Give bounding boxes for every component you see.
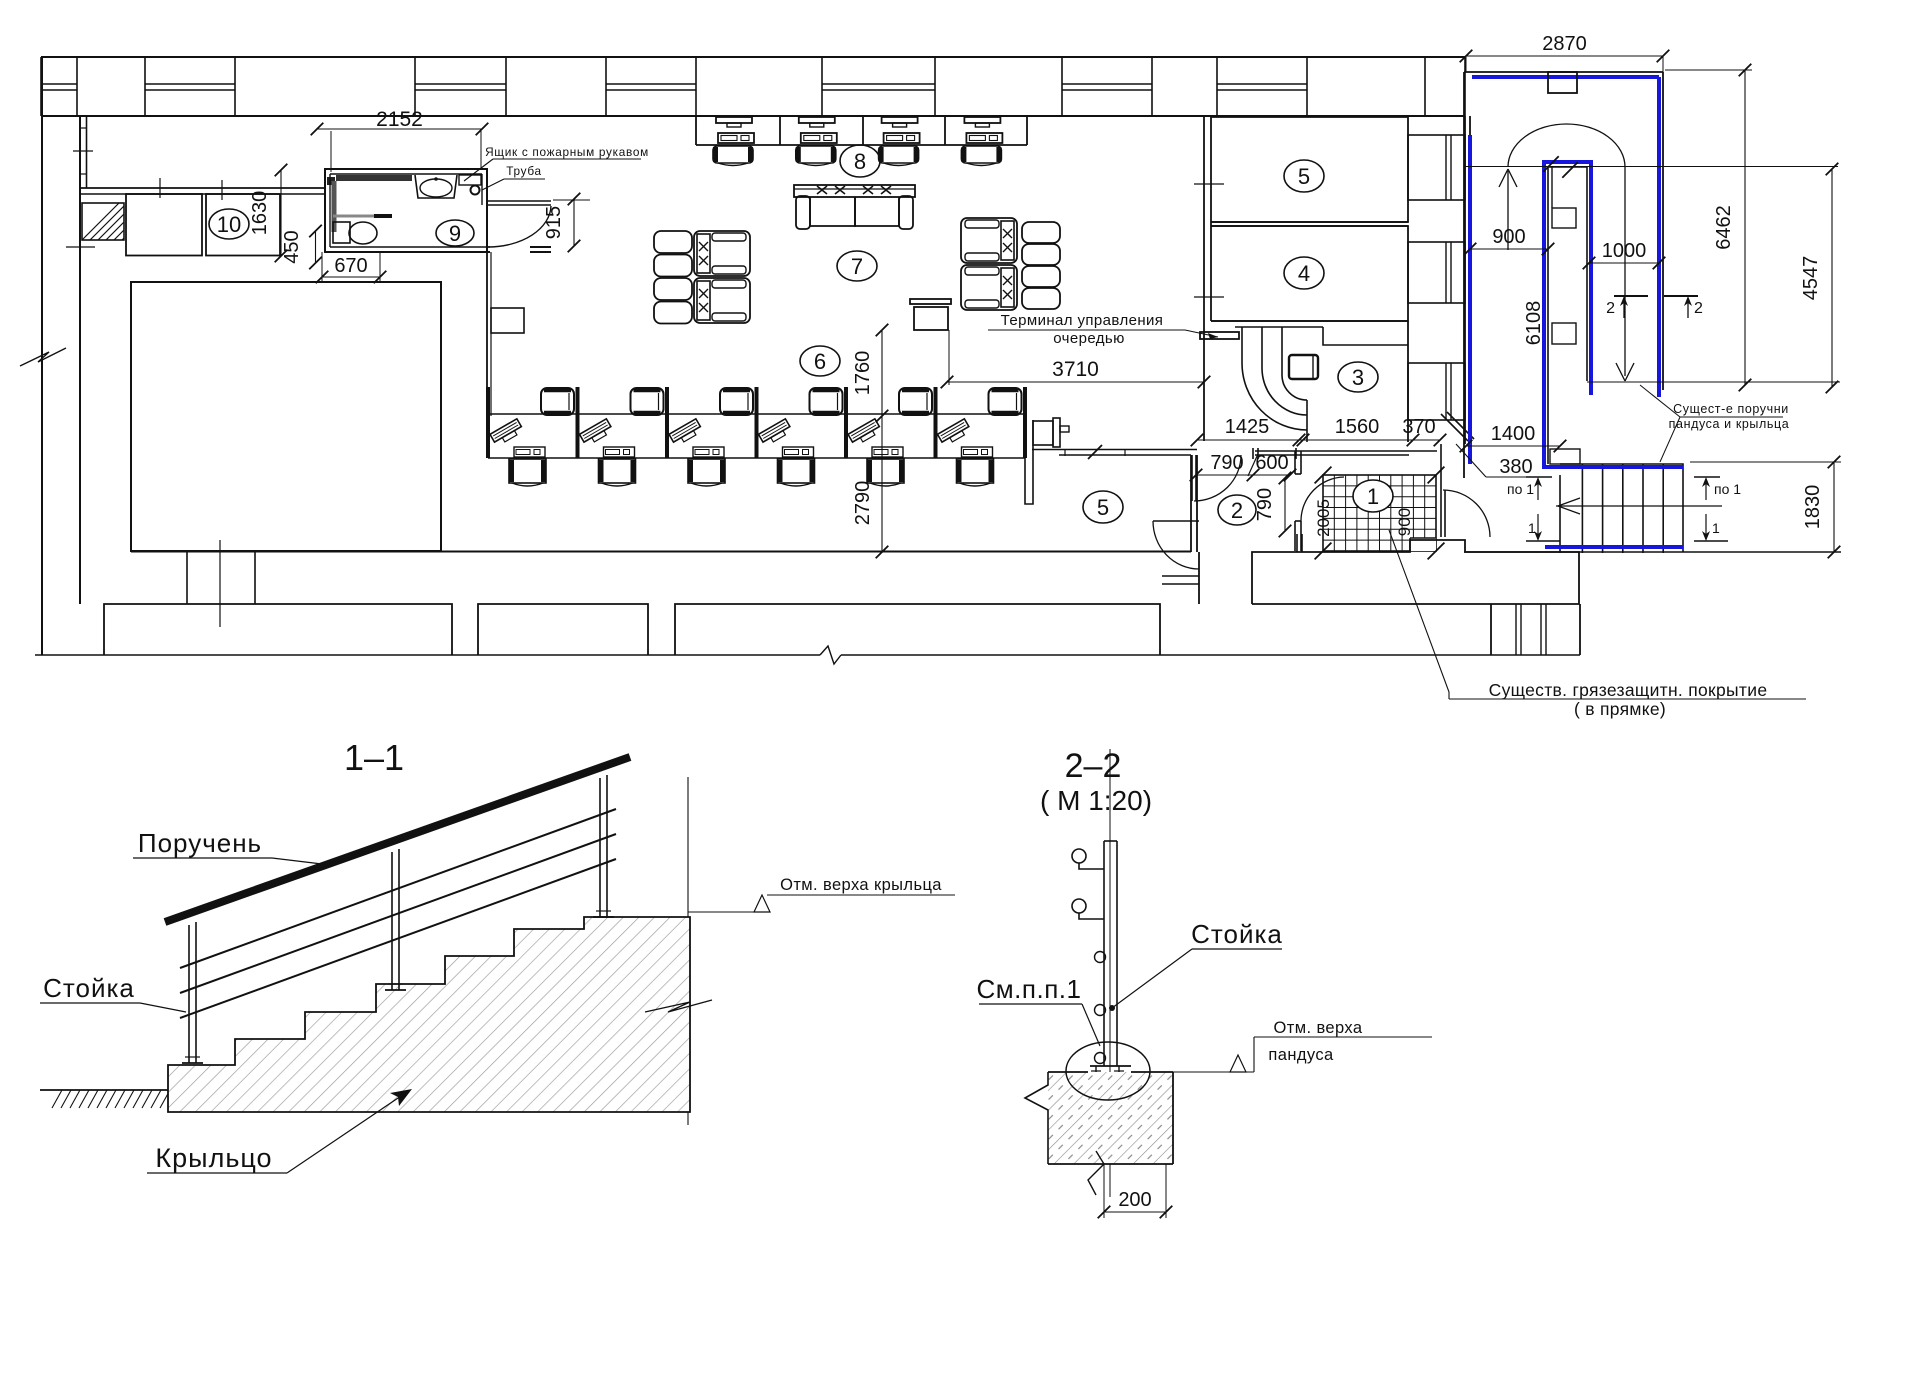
- svg-text:Отм. верха крыльца: Отм. верха крыльца: [780, 876, 942, 894]
- svg-text:6462: 6462: [1713, 205, 1735, 250]
- legs below large block: [187, 540, 255, 627]
- top desk 4 equipment: [964, 117, 1002, 143]
- dimension 2152: [317, 128, 482, 130]
- WC room 9 walls: [325, 169, 490, 252]
- bottom desk 6 chair: [989, 388, 1022, 415]
- stairs railing blue bottom: [1545, 545, 1683, 549]
- door arc lower-left of room 2: [1153, 521, 1199, 569]
- railing post 1: [182, 922, 203, 1063]
- svg-text:380: 380: [1499, 456, 1532, 478]
- step annotation left: [1526, 477, 1560, 541]
- rail hook lower: [1072, 899, 1104, 919]
- room label circle 3: [1338, 362, 1378, 392]
- post axis line: [1109, 749, 1111, 1197]
- fire hose box: [459, 175, 481, 185]
- svg-text:1000: 1000: [1602, 240, 1647, 262]
- svg-text:очередью: очередью: [1053, 330, 1125, 347]
- svg-text:6108: 6108: [1523, 301, 1545, 346]
- printer table: [1033, 418, 1069, 447]
- svg-text:7: 7: [851, 254, 863, 279]
- svg-text:Поручень: Поручень: [138, 828, 262, 858]
- wall between room5 and room2: [1191, 455, 1197, 552]
- dimension 670: [322, 276, 380, 278]
- mat notch bottom right: [1410, 538, 1436, 551]
- hall bottom wall: [131, 551, 1191, 553]
- top wall window glazing lines: [41, 84, 1307, 90]
- dark junction block at WC corner: [327, 177, 335, 185]
- L-shaped partition: [1025, 420, 1033, 504]
- room 5 (upper) outline: [1211, 117, 1408, 222]
- vestibule bottom wall band: [1252, 540, 1579, 604]
- ramp outer railing blue: [1472, 75, 1659, 79]
- two-seat sofa: [794, 185, 915, 229]
- svg-text:2790: 2790: [852, 481, 874, 526]
- svg-text:по 1: по 1: [1507, 481, 1534, 497]
- svg-text:5: 5: [1298, 164, 1310, 189]
- left exterior wall: [42, 57, 80, 655]
- dimension row 790 600: [1196, 474, 1290, 476]
- stairs railing blue top: [1542, 465, 1683, 469]
- right armchair 2: [961, 265, 1017, 310]
- left armchair 2: [694, 278, 750, 323]
- toilet: [333, 222, 377, 244]
- inner door swing over mat: [1301, 477, 1344, 521]
- top exterior wall: [41, 57, 1465, 116]
- svg-text:790: 790: [1254, 488, 1276, 521]
- hatched wall pier: [82, 203, 124, 240]
- bottom desk 1 chair: [541, 388, 574, 415]
- dimension 1830: [1833, 462, 1835, 552]
- queue terminal wall shelf: [1200, 332, 1239, 339]
- left lounge cushions column: [654, 231, 692, 324]
- svg-text:2: 2: [1606, 300, 1615, 317]
- svg-text:Труба: Труба: [506, 164, 542, 178]
- room 4 bottom wall double: [1211, 321, 1408, 442]
- dimension 790 vertical: [1284, 478, 1286, 531]
- svg-text:См.п.п.1: См.п.п.1: [977, 974, 1082, 1004]
- ramp inner walls black: [1548, 167, 1587, 464]
- svg-text:1630: 1630: [249, 191, 271, 236]
- svg-text:Крыльцо: Крыльцо: [155, 1143, 272, 1173]
- WC interior dark strips: [336, 175, 412, 181]
- svg-text:2005: 2005: [1314, 499, 1333, 537]
- block break symbol bottom: [1088, 1151, 1104, 1195]
- bottom desk 4 phone: [783, 447, 814, 457]
- window piers right of rooms block: [1408, 135, 1465, 420]
- bottom desk 1 phone: [514, 447, 545, 457]
- WC door leaf and swing: [487, 201, 551, 252]
- label 1400: [1466, 445, 1560, 447]
- left wall break symbol: [20, 348, 66, 366]
- svg-text:670: 670: [334, 255, 367, 277]
- bottom wall piers: [104, 604, 1160, 655]
- building right wall at ramp: [1465, 116, 1470, 444]
- svg-text:Стойка: Стойка: [1191, 919, 1283, 949]
- dimension 900 ramp: [1470, 248, 1548, 250]
- ramp inner corner tick: [1543, 156, 1558, 171]
- bottom desk 2 keyboard: [580, 419, 614, 447]
- wall left of mat upper stub: [1295, 451, 1301, 474]
- bottom desk 1 keyboard: [490, 419, 524, 447]
- svg-text:3710: 3710: [1052, 358, 1099, 381]
- room 10 box: [206, 194, 280, 256]
- piers under vestibule: [1491, 604, 1580, 655]
- svg-text:1425: 1425: [1225, 416, 1270, 438]
- bottom desk 5 phone: [872, 447, 903, 457]
- svg-text:915: 915: [543, 206, 565, 239]
- rail hook upper: [1072, 849, 1104, 869]
- large room block (vault): [131, 282, 441, 551]
- svg-text:2152: 2152: [376, 108, 423, 131]
- room label circle 7: [837, 251, 877, 281]
- bottom desk 6 phone: [962, 447, 993, 457]
- svg-text:1–1: 1–1: [344, 737, 404, 778]
- bottom desk 1 monitor: [509, 459, 546, 486]
- wash sink: [415, 175, 457, 198]
- svg-text:Сущест-е поручни: Сущест-е поручни: [1673, 402, 1789, 416]
- hall right wall: [1204, 117, 1211, 441]
- svg-text:( М 1:20): ( М 1:20): [1040, 785, 1152, 816]
- ramp top notch: [1548, 72, 1577, 93]
- bottom desk 3 phone: [693, 447, 724, 457]
- vestibule top wall: [1253, 448, 1409, 459]
- bottom desk row band: [488, 414, 1025, 458]
- svg-text:Стойка: Стойка: [43, 973, 135, 1003]
- closet room left box: [126, 194, 202, 256]
- room label circle 2: [1218, 495, 1256, 525]
- dirt mat grid: [1323, 475, 1436, 551]
- grab bar: [333, 215, 392, 218]
- bottom desk 5 chair: [899, 388, 932, 415]
- mat wall continuation into band: [1296, 534, 1298, 552]
- step annotation right: [1694, 477, 1728, 541]
- level mark top of porch: [687, 777, 689, 917]
- room label circle 9: [436, 220, 474, 246]
- room 5 top partition: [1032, 450, 1197, 457]
- bottom desk 3 chair: [720, 388, 753, 415]
- svg-text:2–2: 2–2: [1065, 747, 1122, 785]
- door to landing leaf and swing: [1441, 490, 1490, 537]
- svg-text:пандуса: пандуса: [1268, 1046, 1334, 1064]
- porch break symbol right: [645, 1000, 712, 1012]
- post body: [1104, 841, 1117, 1066]
- concrete block section 2-2: [1048, 1072, 1173, 1164]
- svg-text:2: 2: [1231, 498, 1243, 523]
- ramp inner railing blue: [1544, 162, 1591, 467]
- dimension 200: [1104, 1211, 1166, 1213]
- railing rails 3 lines: [180, 809, 616, 1018]
- hall left wall below WC: [487, 252, 491, 416]
- room label circle 4: [1284, 257, 1324, 289]
- ground line bottom: [35, 646, 1580, 664]
- wall tick on closet top line: [221, 180, 223, 200]
- dimension 3710: [947, 381, 1204, 383]
- post mount circles: [1095, 952, 1106, 963]
- svg-text:1560: 1560: [1335, 416, 1380, 438]
- dimension 4547: [1831, 169, 1833, 387]
- dimension 1630 vertical: [280, 170, 282, 256]
- leader dirt mat label: [1389, 530, 1449, 699]
- room label circle 10: [209, 209, 249, 239]
- stairs outline: [1560, 464, 1683, 553]
- svg-text:6: 6: [814, 349, 826, 374]
- top desk 1 chair: [713, 146, 753, 166]
- dimension 6462: [1744, 70, 1746, 385]
- right lounge cushions column: [1022, 222, 1060, 309]
- ground hatching: [52, 1090, 170, 1108]
- svg-text:1: 1: [1712, 520, 1720, 536]
- bottom desk 6 keyboard: [938, 419, 972, 447]
- room label circle 8: [840, 145, 880, 177]
- svg-text:900: 900: [1395, 508, 1414, 536]
- dimension row 1425 1560 370: [1197, 439, 1440, 441]
- svg-text:4547: 4547: [1800, 256, 1822, 301]
- mat corner ticks: [1315, 543, 1332, 560]
- wall left of mat lower stub: [1295, 521, 1301, 551]
- bottom desk 2 monitor: [599, 459, 636, 486]
- door to room 2 leaf and swing: [1192, 455, 1241, 501]
- bottom desk 4 chair: [810, 388, 843, 415]
- svg-text:450: 450: [281, 230, 303, 263]
- appliance box room 3: [1289, 355, 1318, 379]
- mat label circle 1: [1353, 480, 1393, 512]
- svg-text:5: 5: [1097, 495, 1109, 520]
- bottom desk 3 monitor: [688, 459, 725, 486]
- ramp direction line with U-turn: [1508, 124, 1625, 376]
- ground line left: [40, 1089, 168, 1091]
- stairs walk line with arrow: [1556, 505, 1722, 507]
- closet door tick: [159, 178, 161, 198]
- svg-text:Ящик с пожарным рукавом: Ящик с пожарным рукавом: [485, 145, 649, 159]
- svg-text:900: 900: [1492, 226, 1525, 248]
- svg-text:2: 2: [1694, 300, 1703, 317]
- room 4 outline: [1211, 222, 1408, 321]
- info stand: [910, 299, 951, 385]
- porch steps hatched profile: [168, 917, 690, 1112]
- vent shaft at left wall: [73, 116, 93, 188]
- bottom desk 2 phone: [604, 447, 635, 457]
- svg-text:1760: 1760: [852, 351, 874, 396]
- svg-text:4: 4: [1298, 261, 1310, 286]
- ramp baseline y166: [1464, 166, 1838, 168]
- svg-text:3: 3: [1352, 365, 1364, 390]
- right armchair 1: [961, 218, 1017, 263]
- railing post 3: [593, 775, 614, 917]
- svg-text:1400: 1400: [1491, 423, 1536, 445]
- bottom desk 3 keyboard: [669, 419, 703, 447]
- svg-text:9: 9: [449, 221, 461, 246]
- bottom desk 6 monitor: [957, 459, 994, 486]
- wall tie ticks on right wall: [1194, 183, 1224, 185]
- bottom desk 4 keyboard: [759, 419, 793, 447]
- diagonal wall vestibule to ramp: [1409, 412, 1474, 490]
- dimension 2870: [1466, 55, 1663, 57]
- pipe circle: [471, 186, 480, 195]
- bottom desk 4 monitor: [778, 459, 815, 486]
- top desk row surface: [696, 116, 1027, 145]
- top desk 3 chair: [879, 146, 919, 166]
- top desk 1 equipment: [716, 117, 754, 143]
- svg-text:по 1: по 1: [1714, 481, 1741, 497]
- bottom desk 2 chair: [631, 388, 664, 415]
- svg-text:10: 10: [217, 212, 241, 237]
- railing post 2: [385, 849, 406, 990]
- base ellipse detail bubble: [1066, 1042, 1150, 1100]
- bottom desk 5 keyboard: [848, 419, 882, 447]
- bottom desk dividers: [488, 387, 1025, 458]
- wall tie tick left wall: [66, 246, 95, 248]
- dimension 915: [573, 199, 575, 246]
- top desk 3 equipment: [882, 117, 920, 143]
- base plate and anchors: [1090, 1066, 1131, 1077]
- svg-text:1: 1: [1367, 484, 1379, 509]
- svg-text:пандуса и крыльца: пандуса и крыльца: [1669, 417, 1790, 431]
- curved corridor walls: [1242, 327, 1307, 442]
- svg-text:( в прямке): ( в прямке): [1574, 699, 1666, 719]
- svg-text:8: 8: [854, 149, 866, 174]
- svg-text:200: 200: [1118, 1189, 1151, 1211]
- dimension 450: [315, 231, 317, 263]
- svg-text:1: 1: [1528, 520, 1536, 536]
- ramp outer walls black: [1464, 72, 1663, 478]
- svg-text:370: 370: [1402, 416, 1435, 438]
- left armchair 1: [694, 231, 750, 276]
- top wall of closet row: [80, 188, 325, 194]
- svg-text:Терминал управления: Терминал управления: [1001, 312, 1164, 329]
- wall cabinet: [491, 308, 524, 333]
- top desk 2 equipment: [799, 117, 837, 143]
- dimension 1000 ramp: [1589, 262, 1659, 264]
- top desk 2 chair: [796, 146, 836, 166]
- section marks 2-2: [1614, 296, 1698, 318]
- top desk 4 chair: [961, 146, 1001, 166]
- room label circle 5 lower: [1083, 491, 1123, 523]
- room label circle 6: [800, 346, 840, 376]
- bottom desk 5 monitor: [867, 459, 904, 486]
- porch bottom extension: [687, 1112, 689, 1125]
- handrail top bar: [165, 757, 630, 922]
- vestibule door lines in bottom band: [1162, 552, 1199, 604]
- dimension 1760 and 2790 vertical line: [881, 330, 883, 553]
- room label circle 5 upper: [1284, 160, 1324, 192]
- svg-text:Отм. верха: Отм. верха: [1274, 1019, 1363, 1037]
- svg-text:1830: 1830: [1802, 485, 1824, 530]
- svg-text:Существ. грязезащитн. покрытие: Существ. грязезащитн. покрытие: [1489, 680, 1768, 700]
- svg-text:2870: 2870: [1542, 33, 1587, 55]
